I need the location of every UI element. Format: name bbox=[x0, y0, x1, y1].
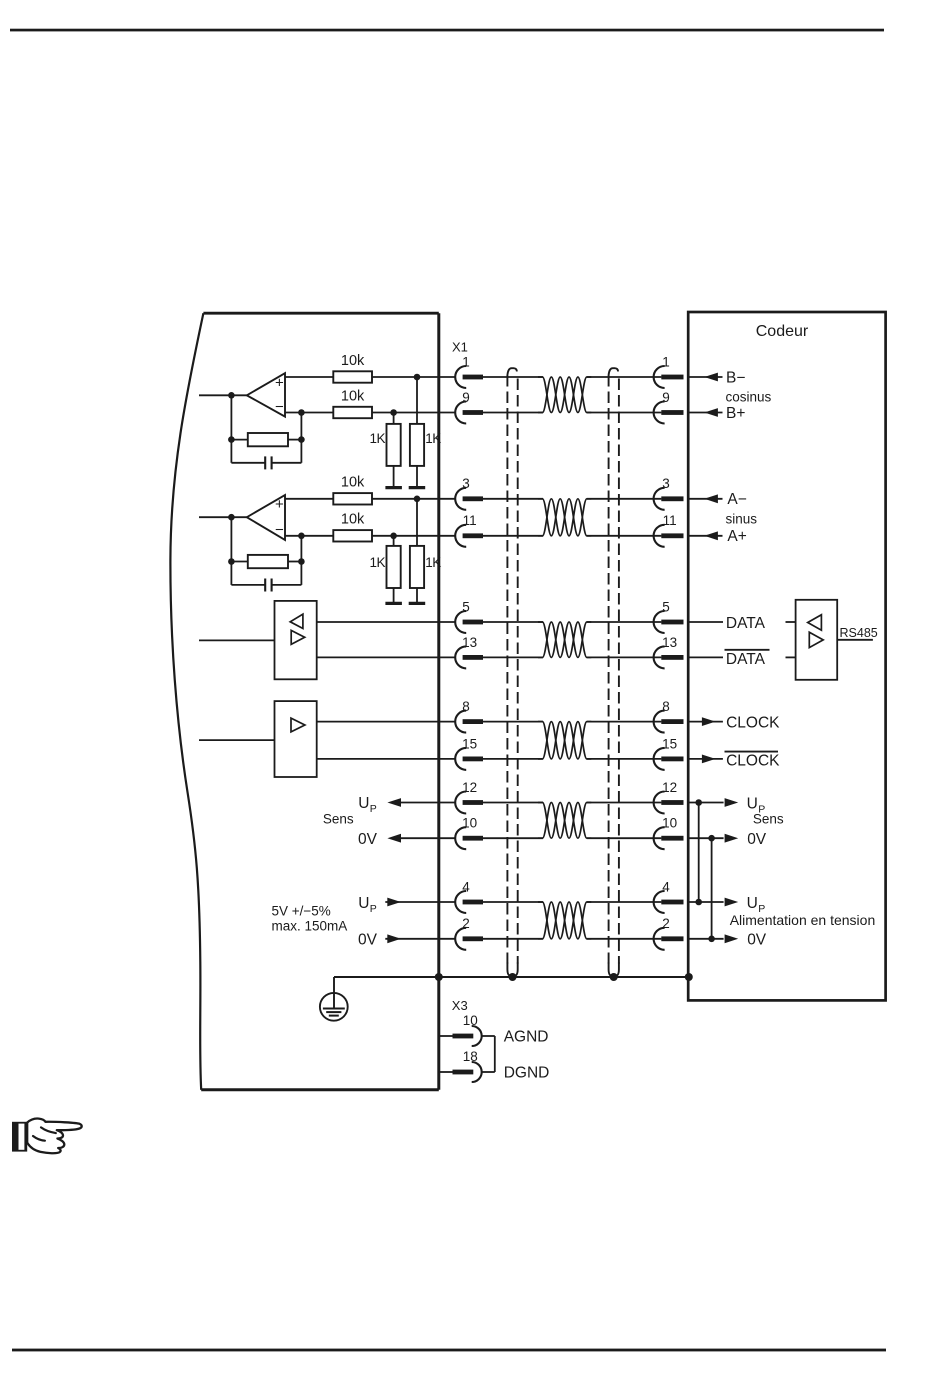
label CLOCK-bar bbox=[725, 752, 781, 770]
connector X1 pin 15 (drive side) bbox=[455, 748, 483, 770]
wire cable left segment pin 9 bbox=[483, 412, 543, 414]
pin number 10 (encoder side) bbox=[662, 816, 677, 831]
wire cable right segment pin 1 bbox=[587, 376, 662, 378]
connector pin 12 (encoder side) bbox=[654, 792, 684, 814]
pin number 10 (drive side) bbox=[462, 816, 477, 831]
wire+arrow 0V supply (pin 2, encoder) bbox=[689, 932, 767, 949]
pin number 9 (drive side) bbox=[462, 390, 470, 405]
wire stub X3 pin 18 bbox=[439, 1071, 453, 1073]
wire cable left segment pin 2 bbox=[483, 938, 543, 940]
svg-text:X3: X3 bbox=[452, 998, 468, 1013]
ground bar (left 1K) U2 (sinus) bbox=[385, 602, 402, 605]
connector pin 2 (encoder side) bbox=[654, 928, 684, 950]
wire feedback left vertical U1 (cosinus) bbox=[228, 395, 235, 463]
wire op-amp output U1 (cosinus) bbox=[199, 392, 247, 399]
connector X1 pin 8 (drive side) bbox=[455, 711, 483, 733]
wire cable left segment pin 3 bbox=[483, 498, 543, 500]
connector X1 pin 11 (drive side) bbox=[455, 525, 483, 547]
label X1 bbox=[452, 340, 468, 355]
wire drive-side row pin 4 bbox=[385, 901, 455, 903]
svg-text:8: 8 bbox=[462, 699, 470, 714]
shield ground bus wire bbox=[334, 976, 689, 978]
connector pin 4 (encoder side) bbox=[654, 891, 684, 913]
ground bar (right 1K) U1 (cosinus) bbox=[409, 486, 426, 489]
svg-text:3: 3 bbox=[462, 476, 470, 491]
svg-text:1: 1 bbox=[662, 354, 670, 369]
arrow out Up sense bbox=[387, 798, 401, 807]
connector X1 pin 10 (drive side) bbox=[455, 827, 483, 849]
svg-text:A−: A− bbox=[727, 491, 746, 508]
wire drive-side row pin 3 bbox=[284, 498, 455, 500]
svg-text:10: 10 bbox=[662, 816, 677, 831]
label cosinus bbox=[726, 389, 772, 404]
svg-text:10: 10 bbox=[463, 1013, 478, 1028]
svg-text:10k: 10k bbox=[341, 353, 365, 369]
pin number 12 (drive side) bbox=[462, 780, 477, 795]
connector X1 pin 5 (drive side) bbox=[455, 611, 483, 633]
wire cable right segment pin 3 bbox=[587, 498, 662, 500]
label sinus bbox=[726, 511, 758, 526]
wire feedback right vertical U2 (sinus) bbox=[298, 533, 305, 585]
pointing hand note icon bbox=[12, 1119, 82, 1154]
svg-text:Codeur: Codeur bbox=[756, 323, 809, 340]
pin number 11 (drive side) bbox=[463, 513, 477, 528]
svg-text:−: − bbox=[275, 522, 284, 539]
label Up (drive, sense) bbox=[358, 795, 377, 815]
svg-text:0V: 0V bbox=[747, 831, 767, 848]
pin number 1 (encoder side) bbox=[662, 354, 670, 369]
pin number 15 (drive side) bbox=[462, 736, 477, 751]
triangle right (D2) bbox=[291, 718, 305, 732]
wire cable left segment pin 4 bbox=[483, 901, 543, 903]
svg-text:+: + bbox=[275, 374, 284, 391]
wire link Up pins 12-4 bbox=[698, 803, 700, 903]
connector X1 pin 12 (drive side) bbox=[455, 792, 483, 814]
wire DATA-bar (pin 13) bbox=[689, 656, 723, 658]
wire+arrow B− (pin 1) bbox=[689, 369, 745, 386]
wire cable right segment pin 2 bbox=[587, 938, 662, 940]
RS485 transceiver U3 box bbox=[796, 600, 838, 680]
wire cable right segment pin 8 bbox=[587, 721, 662, 723]
svg-text:−: − bbox=[275, 398, 284, 415]
svg-text:Sens: Sens bbox=[323, 812, 354, 827]
wire+arrow CLOCK-bar (pin 15) bbox=[689, 755, 723, 764]
svg-text:11: 11 bbox=[663, 513, 677, 528]
svg-text:Sens: Sens bbox=[753, 812, 784, 827]
label Alimentation en tension bbox=[730, 912, 876, 928]
wire DATA (pin 5) bbox=[689, 621, 723, 623]
wire drive-side row pin 15 bbox=[317, 758, 456, 760]
svg-text:U: U bbox=[358, 895, 369, 912]
connector X1 pin 3 (drive side) bbox=[455, 488, 483, 510]
svg-text:2: 2 bbox=[462, 916, 470, 931]
svg-text:1K: 1K bbox=[425, 555, 441, 570]
op-amp triangle U2 (sinus) bbox=[247, 495, 285, 540]
svg-text:5V +/−5%: 5V +/−5% bbox=[272, 904, 331, 919]
svg-text:11: 11 bbox=[463, 513, 477, 528]
wire cable right segment pin 5 bbox=[587, 621, 662, 623]
wire cable right segment pin 4 bbox=[587, 901, 662, 903]
resistor 10k (lower) U2 (sinus) bbox=[333, 530, 372, 541]
label 10k (upper) U2 (sinus) bbox=[341, 475, 365, 491]
label 10k (lower) U1 (cosinus) bbox=[341, 388, 365, 404]
servo drive enclosure box (left, wavy edge) bbox=[170, 313, 438, 1090]
wire stub DATA-bar to RS485 bbox=[786, 656, 796, 658]
pin number 15 (encoder side) bbox=[662, 736, 677, 751]
svg-text:DGND: DGND bbox=[504, 1065, 550, 1082]
connector X1 pin 4 (drive side) bbox=[455, 891, 483, 913]
label 1K (left) U1 (cosinus) bbox=[369, 431, 385, 446]
wire drive-side row pin 9 bbox=[285, 412, 455, 414]
twisted pair supply (pins 4/2) bbox=[538, 902, 591, 939]
wire D2 input stub bbox=[199, 739, 275, 741]
label Codeur bbox=[756, 323, 809, 340]
wire drive-side row pin 11 bbox=[284, 535, 455, 537]
wire drive-side row pin 13 bbox=[317, 656, 456, 658]
label 0V (drive, sense) bbox=[358, 831, 378, 848]
pin number 8 (encoder side) bbox=[662, 699, 670, 714]
connector X1 pin 1 (drive side) bbox=[455, 366, 483, 388]
svg-text:sinus: sinus bbox=[726, 511, 758, 526]
arrow in 0V supply bbox=[387, 934, 401, 943]
connector X3 pin 18 bbox=[453, 1062, 482, 1082]
svg-text:DATA: DATA bbox=[726, 651, 766, 668]
svg-text:X1: X1 bbox=[452, 340, 468, 355]
pin number 1 (drive side) bbox=[462, 354, 470, 369]
label DGND bbox=[504, 1065, 550, 1082]
svg-text:U: U bbox=[747, 895, 758, 912]
wire+arrow 0V sense (pin 10, encoder) bbox=[689, 831, 767, 848]
wire+arrow A+ (pin 11) bbox=[689, 528, 747, 545]
label Sens (drive) bbox=[323, 812, 354, 827]
svg-text:B+: B+ bbox=[726, 405, 745, 422]
wire+arrow Up sense (pin 12, encoder) bbox=[689, 795, 765, 815]
wire+arrow B+ (pin 9) bbox=[689, 405, 745, 422]
resistor 10k (upper) U2 (sinus) bbox=[333, 493, 372, 504]
svg-text:1K: 1K bbox=[369, 555, 385, 570]
op-amp triangle U1 (cosinus) bbox=[247, 373, 285, 416]
wire cable right segment pin 9 bbox=[587, 412, 662, 414]
wire stub X3 pin 10 bbox=[439, 1035, 453, 1037]
svg-text:10k: 10k bbox=[341, 475, 365, 491]
svg-text:4: 4 bbox=[662, 879, 670, 894]
svg-text:10k: 10k bbox=[341, 388, 365, 404]
twisted pair DATA (pins 5/13) bbox=[538, 622, 591, 657]
svg-text:0V: 0V bbox=[358, 831, 378, 848]
svg-text:18: 18 bbox=[463, 1049, 478, 1064]
wire cable left segment pin 1 bbox=[483, 376, 543, 378]
junction bus / drive edge bbox=[435, 973, 443, 981]
arrow out 0V sense bbox=[387, 834, 401, 843]
label AGND bbox=[504, 1029, 549, 1046]
label Up (drive, supply) bbox=[358, 895, 377, 915]
triangle left (U3) bbox=[808, 615, 822, 631]
wire cable right segment pin 12 bbox=[587, 802, 662, 804]
triangle right (U3) bbox=[809, 632, 823, 647]
wire drive-side row pin 10 bbox=[401, 837, 455, 839]
svg-text:A+: A+ bbox=[727, 528, 746, 545]
page header rule bbox=[10, 29, 884, 32]
wire cable left segment pin 11 bbox=[483, 535, 543, 537]
wire drive-side row pin 5 bbox=[317, 621, 456, 623]
wire cable left segment pin 15 bbox=[483, 758, 543, 760]
label 1K (right) U1 (cosinus) bbox=[425, 431, 441, 446]
svg-text:5: 5 bbox=[462, 599, 470, 614]
pin number 2 (drive side) bbox=[462, 916, 470, 931]
wire cable left segment pin 8 bbox=[483, 721, 543, 723]
pin number 2 (encoder side) bbox=[662, 916, 670, 931]
pin number 11 (encoder side) bbox=[663, 513, 677, 528]
svg-text:15: 15 bbox=[462, 736, 477, 751]
pin number 8 (drive side) bbox=[462, 699, 470, 714]
svg-text:0V: 0V bbox=[358, 932, 378, 949]
svg-text:1K: 1K bbox=[425, 431, 441, 446]
label DATA bbox=[726, 615, 766, 632]
ground bar (left 1K) U1 (cosinus) bbox=[385, 486, 402, 489]
wire cable left segment pin 10 bbox=[483, 837, 543, 839]
svg-text:13: 13 bbox=[662, 635, 677, 650]
pin number 18 (X3) bbox=[463, 1049, 478, 1064]
pin number 13 (encoder side) bbox=[662, 635, 677, 650]
triangle right (D1) bbox=[291, 630, 305, 644]
svg-text:8: 8 bbox=[662, 699, 670, 714]
label 1K (right) U2 (sinus) bbox=[425, 555, 441, 570]
connector pin 9 (encoder side) bbox=[654, 402, 684, 424]
encoder box (Codeur) bbox=[688, 312, 885, 1000]
wire feedback right vertical U1 (cosinus) bbox=[298, 409, 305, 463]
pin number 3 (drive side) bbox=[462, 476, 470, 491]
pin number 5 (drive side) bbox=[462, 599, 470, 614]
label DATA-bar bbox=[725, 650, 770, 668]
svg-text:12: 12 bbox=[662, 780, 677, 795]
connector X1 pin 2 (drive side) bbox=[455, 928, 483, 950]
svg-text:U: U bbox=[358, 795, 369, 812]
svg-text:2: 2 bbox=[662, 916, 670, 931]
svg-text:B−: B− bbox=[726, 369, 745, 386]
svg-text:CLOCK: CLOCK bbox=[726, 715, 780, 732]
svg-text:9: 9 bbox=[662, 390, 670, 405]
svg-text:4: 4 bbox=[462, 879, 470, 894]
connector pin 11 (encoder side) bbox=[654, 525, 684, 547]
wire+arrow A− (pin 3) bbox=[689, 491, 747, 508]
wire cable right segment pin 11 bbox=[587, 535, 662, 537]
svg-text:DATA: DATA bbox=[726, 615, 766, 632]
pin number 3 (encoder side) bbox=[662, 476, 670, 491]
connector pin 13 (encoder side) bbox=[654, 646, 684, 668]
triangle left (D1) bbox=[290, 614, 303, 628]
svg-text:P: P bbox=[370, 803, 377, 815]
label max current bbox=[272, 918, 348, 933]
pin number 4 (encoder side) bbox=[662, 879, 670, 894]
connector X1 pin 13 (drive side) bbox=[455, 646, 483, 668]
wire stub DATA to RS485 bbox=[786, 621, 796, 623]
ground bar (right 1K) U2 (sinus) bbox=[409, 602, 426, 605]
twisted pair Up sense (pins 12/10) bbox=[538, 803, 591, 839]
twisted pair A (pins 3/11) bbox=[538, 499, 591, 536]
resistor 1K (right) U2 (sinus) bbox=[410, 496, 424, 604]
capacitor feedback U1 (cosinus) bbox=[231, 456, 301, 469]
svg-text:U: U bbox=[747, 795, 758, 812]
wire drive-side row pin 12 bbox=[401, 802, 455, 804]
wire drive-side row pin 8 bbox=[317, 721, 456, 723]
wire RS485 output bbox=[837, 639, 873, 641]
wire cable left segment pin 13 bbox=[483, 656, 543, 658]
pin number 12 (encoder side) bbox=[662, 780, 677, 795]
protective earth symbol bbox=[320, 993, 348, 1021]
connector pin 10 (encoder side) bbox=[654, 827, 684, 849]
wire jumper AGND-DGND bbox=[482, 1036, 495, 1072]
junction bus / encoder edge bbox=[685, 973, 693, 981]
label RS485 bbox=[840, 626, 878, 640]
page footer rule bbox=[12, 1349, 886, 1352]
connector X1 pin 9 (drive side) bbox=[455, 402, 483, 424]
label X3 bbox=[452, 998, 468, 1013]
svg-text:10k: 10k bbox=[341, 512, 365, 528]
svg-text:P: P bbox=[370, 903, 377, 915]
pin number 10 (X3) bbox=[463, 1013, 478, 1028]
svg-text:cosinus: cosinus bbox=[726, 389, 772, 404]
resistor feedback U2 (sinus) bbox=[231, 555, 301, 568]
wire+arrow Up supply (pin 4, encoder) bbox=[689, 895, 765, 915]
clock driver D2 box bbox=[275, 701, 317, 777]
capacitor feedback U2 (sinus) bbox=[231, 579, 301, 592]
label 1K (left) U2 (sinus) bbox=[369, 555, 385, 570]
resistor 10k (lower) U1 (cosinus) bbox=[333, 407, 372, 418]
connector pin 5 (encoder side) bbox=[654, 611, 684, 633]
cable shield 1 (dashed) bbox=[507, 368, 517, 981]
svg-text:max. 150mA: max. 150mA bbox=[272, 918, 348, 933]
wire drive-side row pin 2 bbox=[385, 938, 455, 940]
wire link 0V pins 10-2 bbox=[711, 838, 713, 939]
label 10k (upper) U1 (cosinus) bbox=[341, 353, 365, 369]
svg-text:AGND: AGND bbox=[504, 1029, 549, 1046]
svg-text:10: 10 bbox=[462, 816, 477, 831]
resistor 10k (upper) U1 (cosinus) bbox=[333, 371, 372, 382]
wire cable right segment pin 13 bbox=[587, 656, 662, 658]
wire cable right segment pin 15 bbox=[587, 758, 662, 760]
label CLOCK bbox=[726, 715, 780, 732]
svg-text:15: 15 bbox=[662, 736, 677, 751]
resistor 1K (left) U1 (cosinus) bbox=[387, 409, 401, 487]
svg-text:CLOCK: CLOCK bbox=[726, 752, 780, 769]
arrow in Up supply bbox=[387, 898, 401, 907]
cable shield 2 (dashed) bbox=[609, 368, 619, 981]
svg-text:1: 1 bbox=[462, 354, 470, 369]
svg-text:1K: 1K bbox=[369, 431, 385, 446]
resistor feedback U1 (cosinus) bbox=[231, 433, 301, 446]
svg-text:+: + bbox=[275, 496, 284, 513]
connector X3 pin 10 bbox=[453, 1026, 482, 1046]
pin number 13 (drive side) bbox=[462, 635, 477, 650]
connector pin 8 (encoder side) bbox=[654, 711, 684, 733]
wire PE drop bbox=[333, 977, 335, 1008]
connector pin 1 (encoder side) bbox=[654, 366, 684, 388]
svg-text:9: 9 bbox=[462, 390, 470, 405]
wire op-amp output U2 (sinus) bbox=[199, 514, 247, 521]
svg-text:3: 3 bbox=[662, 476, 670, 491]
pin number 9 (encoder side) bbox=[662, 390, 670, 405]
svg-text:RS485: RS485 bbox=[840, 626, 878, 640]
label 10k (lower) U2 (sinus) bbox=[341, 512, 365, 528]
wire D1 input stub bbox=[199, 639, 275, 641]
wire feedback left vertical U2 (sinus) bbox=[228, 517, 235, 585]
wire+arrow CLOCK (pin 8) bbox=[689, 717, 723, 726]
svg-text:Alimentation en tension: Alimentation en tension bbox=[730, 912, 876, 928]
connector pin 3 (encoder side) bbox=[654, 488, 684, 510]
wire cable left segment pin 5 bbox=[483, 621, 543, 623]
wire cable right segment pin 10 bbox=[587, 837, 662, 839]
svg-text:13: 13 bbox=[462, 635, 477, 650]
pin number 5 (encoder side) bbox=[662, 599, 670, 614]
connector pin 15 (encoder side) bbox=[654, 748, 684, 770]
label 5V tolerance bbox=[272, 904, 331, 919]
svg-text:12: 12 bbox=[462, 780, 477, 795]
resistor 1K (left) U2 (sinus) bbox=[387, 533, 401, 604]
resistor 1K (right) U1 (cosinus) bbox=[410, 374, 424, 488]
svg-text:5: 5 bbox=[662, 599, 670, 614]
wire drive-side row pin 1 bbox=[285, 376, 455, 378]
wire cable left segment pin 12 bbox=[483, 802, 543, 804]
twisted pair CLOCK (pins 8/15) bbox=[538, 722, 591, 759]
twisted pair B (pins 1/9) bbox=[538, 377, 591, 413]
label 0V (drive, supply) bbox=[358, 932, 378, 949]
pin number 4 (drive side) bbox=[462, 879, 470, 894]
svg-text:0V: 0V bbox=[747, 932, 767, 949]
line receiver/driver D1 (DATA) box bbox=[275, 601, 317, 679]
label Sens (encoder) bbox=[753, 812, 784, 827]
